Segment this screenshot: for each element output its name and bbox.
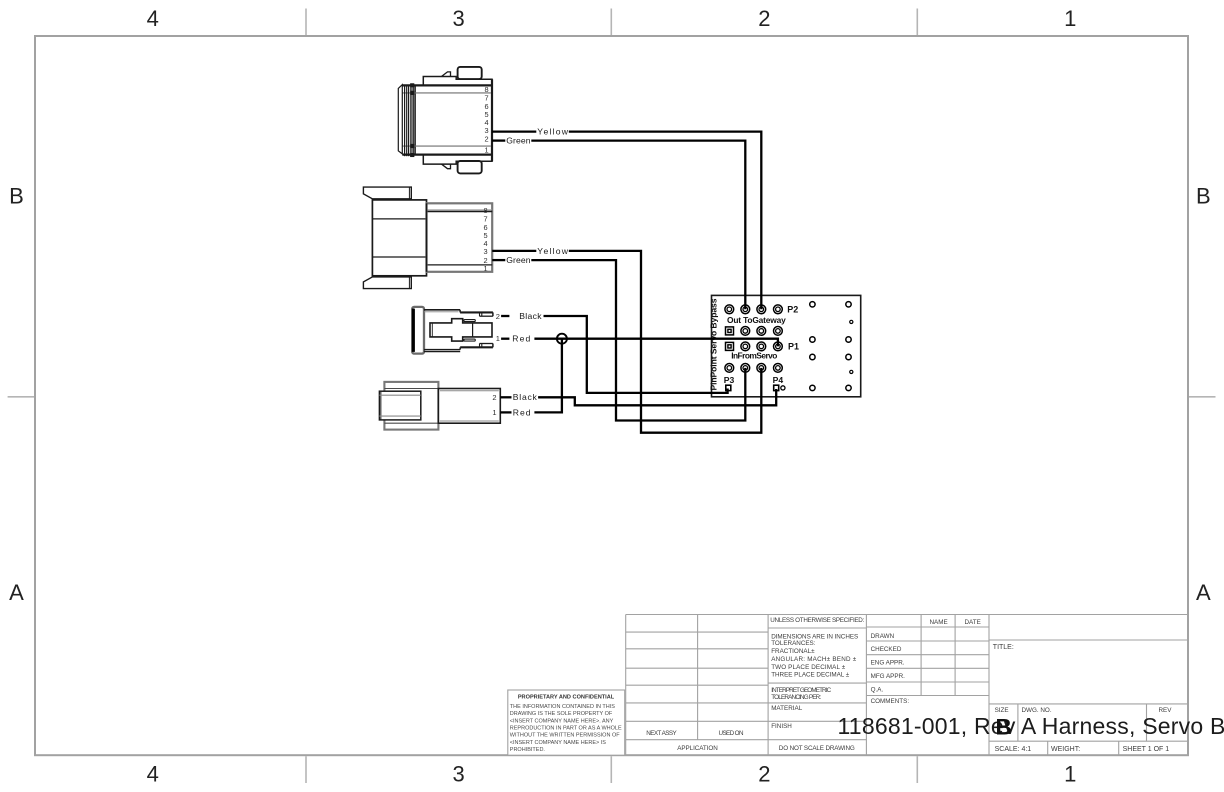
svg-text:WITHOUT THE WRITTEN PERMISSION: WITHOUT THE WRITTEN PERMISSION OF <box>510 733 620 739</box>
wire J4 pin1 Red to node <box>500 411 511 413</box>
mounting vias left column <box>810 302 815 391</box>
J2 top wing <box>363 187 411 199</box>
svg-text:NAME: NAME <box>930 619 948 626</box>
svg-text:FRACTIONAL±: FRACTIONAL± <box>771 648 815 655</box>
J1 bottom step outline <box>423 155 492 165</box>
svg-text:TWO PLACE DECIMAL ±: TWO PLACE DECIMAL ± <box>771 664 846 671</box>
svg-text:SHEET 1 OF 1: SHEET 1 OF 1 <box>1123 746 1170 753</box>
svg-text:Black: Black <box>513 392 538 402</box>
svg-text:B: B <box>996 715 1012 740</box>
svg-text:<INSERT COMPANY NAME HERE> IS: <INSERT COMPANY NAME HERE> IS <box>510 740 607 746</box>
svg-text:Yellow: Yellow <box>537 246 568 256</box>
wire J1 pin2 Green to P2 <box>492 139 505 141</box>
svg-text:1: 1 <box>485 146 489 155</box>
svg-text:MFG APPR.: MFG APPR. <box>871 673 906 680</box>
svg-text:THREE PLACE DECIMAL ±: THREE PLACE DECIMAL ± <box>771 672 850 679</box>
wire labels <box>506 127 569 418</box>
J4 head <box>438 389 500 424</box>
svg-text:FINISH: FINISH <box>771 723 792 730</box>
mounting vias right column <box>846 302 853 391</box>
svg-text:NEXT ASSY: NEXT ASSY <box>646 730 677 737</box>
wire J4 pin2 Black to P4 <box>500 396 511 398</box>
approvals rows <box>866 626 989 628</box>
wires <box>492 132 778 433</box>
svg-text:TITLE:: TITLE: <box>993 644 1014 651</box>
svg-text:Red: Red <box>512 334 530 344</box>
svg-text:2: 2 <box>758 762 770 787</box>
svg-text:THE INFORMATION CONTAINED IN T: THE INFORMATION CONTAINED IN THIS <box>510 704 615 710</box>
P3 pad <box>726 385 731 390</box>
svg-text:CHECKED: CHECKED <box>871 646 902 653</box>
svg-text:DRAWING IS THE SOLE PROPERTY O: DRAWING IS THE SOLE PROPERTY OF <box>510 711 613 717</box>
wire J2 pin2 Green to row4 <box>492 259 505 261</box>
svg-text:DATE: DATE <box>965 619 981 626</box>
J1 body <box>398 79 492 161</box>
svg-text:1: 1 <box>492 408 496 417</box>
svg-text:DO NOT SCALE DRAWING: DO NOT SCALE DRAWING <box>779 745 855 752</box>
J3 pin numbers <box>496 312 500 343</box>
pads row2 <box>726 327 783 336</box>
svg-text:4: 4 <box>147 762 159 787</box>
svg-text:2: 2 <box>496 312 500 321</box>
svg-text:INTERPRET GEOMETRIC: INTERPRET GEOMETRIC <box>771 687 831 694</box>
J3 body outline <box>424 310 493 352</box>
svg-text:118681-001, Rev A Harness, Ser: 118681-001, Rev A Harness, Servo B <box>838 713 1224 739</box>
svg-text:InFromServo: InFromServo <box>731 350 777 360</box>
J2 main body <box>372 200 426 276</box>
svg-text:1: 1 <box>1064 6 1076 31</box>
J2 bottom wing <box>363 277 411 289</box>
J2 pin numbers 8-1 <box>484 206 488 273</box>
proprietary and confidential box <box>508 690 625 755</box>
svg-text:2: 2 <box>492 393 496 402</box>
svg-text:3: 3 <box>452 6 464 31</box>
title area rows <box>989 639 1188 641</box>
svg-text:P1: P1 <box>788 342 799 352</box>
J4 pin numbers <box>492 393 496 417</box>
svg-text:3: 3 <box>452 762 464 787</box>
J3 top key slot <box>464 320 475 322</box>
wire J1 pin3 Yellow to P2 <box>492 130 536 132</box>
svg-text:P2: P2 <box>787 305 798 315</box>
J4 outer body <box>384 382 438 430</box>
svg-text:ENG APPR.: ENG APPR. <box>871 660 905 667</box>
svg-text:TOLERANCING PER:: TOLERANCING PER: <box>771 694 821 701</box>
svg-text:UNLESS OTHERWISE SPECIFIED:: UNLESS OTHERWISE SPECIFIED: <box>770 617 864 624</box>
svg-text:2: 2 <box>758 6 770 31</box>
PCB PinPoint Servo Bypass board <box>709 295 861 396</box>
P4 pad <box>774 385 779 390</box>
wire J2 pin3 Yellow to row4 <box>492 250 536 252</box>
svg-text:SCALE: 4:1: SCALE: 4:1 <box>995 746 1032 753</box>
left column rows <box>626 631 768 633</box>
svg-text:A: A <box>1196 580 1211 605</box>
title block small text <box>646 617 1172 753</box>
J1 bottom latch tab <box>458 161 482 173</box>
wire J3 pin1 Red to P1 <box>501 338 509 340</box>
board outline <box>712 295 861 396</box>
J3 rear cap <box>412 307 424 354</box>
svg-text:1: 1 <box>484 264 488 273</box>
svg-text:PinPoint Servo Bypass: PinPoint Servo Bypass <box>709 298 719 390</box>
J1 top step outline <box>423 77 492 86</box>
svg-text:PROHIBITED.: PROHIBITED. <box>510 747 546 753</box>
svg-text:COMMENTS:: COMMENTS: <box>871 698 910 705</box>
svg-text:<INSERT COMPANY NAME HERE>. A: <INSERT COMPANY NAME HERE>. ANY <box>510 718 614 724</box>
svg-text:Black: Black <box>519 311 542 321</box>
svg-text:TOLERANCES:: TOLERANCES: <box>771 640 816 647</box>
J1 bottom latch wedge <box>442 164 451 169</box>
svg-text:4: 4 <box>147 6 159 31</box>
svg-text:A: A <box>9 580 24 605</box>
svg-text:MATERIAL: MATERIAL <box>771 705 803 712</box>
via next to P4 <box>781 386 785 390</box>
svg-text:Q.A.: Q.A. <box>871 686 884 693</box>
pads row4 <box>725 364 782 373</box>
J3 bottom key slot <box>464 339 475 341</box>
connector J3 2-pin plug <box>412 307 500 354</box>
svg-text:B: B <box>1196 184 1211 209</box>
svg-text:WEIGHT:: WEIGHT: <box>1051 746 1080 753</box>
connector J4 2-pin receptacle <box>379 382 500 430</box>
header P1 pads row3 <box>726 342 783 351</box>
svg-text:1: 1 <box>496 334 500 343</box>
svg-text:PROPRIETARY AND CONFIDENTIAL: PROPRIETARY AND CONFIDENTIAL <box>518 695 615 701</box>
svg-text:2: 2 <box>485 135 489 144</box>
J2 head <box>427 203 493 271</box>
svg-text:B: B <box>9 184 24 209</box>
wire J3 pin2 Black to P3 <box>501 315 509 317</box>
J1 pin numbers 8-1 <box>485 85 489 155</box>
header P2 pads row1 <box>725 305 782 314</box>
title block grid <box>626 615 1188 756</box>
middle column rows <box>768 627 866 629</box>
node junction on red net <box>557 334 567 344</box>
svg-text:3: 3 <box>484 247 488 256</box>
connector J2 8-pin receptacle <box>363 187 492 289</box>
svg-text:Yellow: Yellow <box>537 127 568 137</box>
J1 top latch tab <box>458 67 482 79</box>
connector J1 8-pin plug <box>398 67 492 173</box>
J3 inner plug profile <box>430 319 492 341</box>
J1 mating face bars <box>398 83 414 157</box>
J1 top latch wedge <box>442 72 451 77</box>
svg-text:APPLICATION: APPLICATION <box>677 745 718 752</box>
svg-text:REPRODUCTION IN PART OR AS A W: REPRODUCTION IN PART OR AS A WHOLE <box>510 726 622 732</box>
svg-text:Green: Green <box>506 136 531 146</box>
svg-text:Green: Green <box>506 255 531 265</box>
svg-text:USED ON: USED ON <box>719 730 744 737</box>
svg-text:Out ToGateway: Out ToGateway <box>727 315 786 325</box>
svg-text:P4: P4 <box>773 375 784 385</box>
svg-text:Red: Red <box>513 407 531 417</box>
svg-text:DRAWN: DRAWN <box>871 633 895 640</box>
svg-text:P3: P3 <box>724 375 735 385</box>
J4 inner nose <box>384 388 438 390</box>
svg-text:ANGULAR: MACH± BEND ±: ANGULAR: MACH± BEND ± <box>771 656 857 663</box>
svg-text:1: 1 <box>1064 762 1076 787</box>
